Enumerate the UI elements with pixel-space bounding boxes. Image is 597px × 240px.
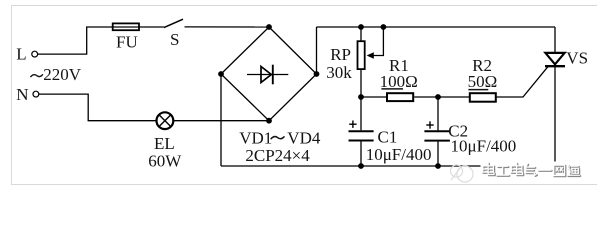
fuse FU	[112, 23, 140, 51]
bridge rectifier VD1-VD4	[221, 27, 317, 121]
thyristor VS	[545, 27, 588, 166]
svg-text:C1: C1	[378, 127, 398, 146]
wire bridge right up	[316, 27, 318, 74]
node rail-wiper	[381, 24, 387, 30]
wire bottom rail	[221, 165, 555, 167]
terminal N	[16, 85, 39, 104]
wire lamp to bridge bottom	[174, 120, 269, 122]
node C1-rail	[358, 163, 364, 169]
node R1-R2-C2	[435, 94, 441, 100]
wire fuse to switch	[140, 26, 164, 28]
svg-text:2CP24×4: 2CP24×4	[245, 146, 310, 165]
resistor R1	[380, 56, 418, 101]
watermark text	[483, 163, 580, 176]
wire R1 to R2	[414, 96, 469, 98]
lamp EL	[148, 112, 182, 170]
wire R2 to gate	[496, 66, 549, 97]
capacitor C1	[349, 97, 432, 166]
svg-text:FU: FU	[116, 32, 138, 51]
potentiometer RP	[326, 27, 383, 97]
node bridge left	[218, 71, 224, 77]
node RP-R1-C1	[358, 94, 364, 100]
wire bridge left down	[220, 74, 222, 166]
wire RP to R1	[361, 96, 387, 98]
terminal L	[16, 44, 37, 63]
wire switch to bridge top	[185, 26, 270, 28]
svg-text:10μF/400: 10μF/400	[366, 145, 432, 164]
svg-text:60W: 60W	[148, 152, 182, 171]
resistor R2	[468, 56, 498, 102]
svg-text:100Ω: 100Ω	[380, 72, 418, 91]
svg-text:RP: RP	[330, 45, 351, 64]
svg-text:L: L	[16, 44, 26, 63]
node bridge top	[266, 24, 272, 30]
node C2-rail	[435, 163, 441, 169]
svg-text:VD1: VD1	[239, 129, 272, 148]
label ~220V	[30, 74, 43, 77]
svg-text:S: S	[170, 30, 179, 49]
node rail-RP	[358, 24, 364, 30]
wire top dc rail	[317, 26, 556, 28]
watermark logo	[451, 165, 474, 182]
svg-text:EL: EL	[154, 134, 175, 153]
capacitor C2	[424, 97, 516, 166]
node bridge right	[314, 71, 320, 77]
wire N to lamp	[39, 94, 156, 121]
svg-text:50Ω: 50Ω	[468, 72, 498, 91]
svg-text:10μF/400: 10μF/400	[451, 136, 517, 155]
wire L to fuse	[38, 27, 112, 54]
node bridge bottom	[266, 118, 272, 124]
svg-text:N: N	[16, 85, 28, 104]
switch S	[164, 19, 183, 49]
svg-text:30k: 30k	[326, 63, 352, 82]
svg-text:VD4: VD4	[287, 129, 321, 148]
svg-text:220V: 220V	[43, 65, 81, 84]
watermark backdrop	[481, 162, 584, 179]
svg-text:VS: VS	[566, 49, 588, 68]
